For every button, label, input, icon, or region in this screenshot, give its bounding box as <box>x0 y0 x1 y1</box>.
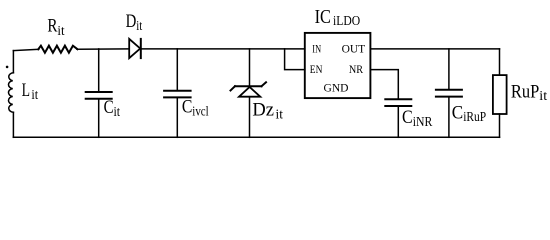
svg-text:it: it <box>276 108 284 123</box>
svg-text:NR: NR <box>349 64 364 76</box>
svg-text:it: it <box>136 19 142 34</box>
svg-text:C: C <box>104 98 114 118</box>
svg-text:ivcl: ivcl <box>192 104 208 119</box>
svg-text:OUT: OUT <box>342 44 366 56</box>
svg-text:Dz: Dz <box>252 101 274 121</box>
svg-text:D: D <box>126 12 137 32</box>
svg-text:IN: IN <box>312 44 321 56</box>
svg-text:iLDO: iLDO <box>333 14 360 29</box>
svg-text:IC: IC <box>315 6 331 28</box>
svg-text:iNR: iNR <box>413 115 433 130</box>
svg-text:iRuP: iRuP <box>463 110 486 125</box>
svg-text:C: C <box>182 98 193 118</box>
svg-text:it: it <box>31 88 38 103</box>
svg-text:EN: EN <box>310 64 323 76</box>
svg-text:it: it <box>539 89 547 104</box>
svg-text:GND: GND <box>324 83 349 95</box>
svg-text:C: C <box>402 108 413 128</box>
svg-text:it: it <box>57 24 64 39</box>
svg-text:C: C <box>452 104 463 124</box>
svg-text:it: it <box>114 105 121 120</box>
svg-text:RuP: RuP <box>511 83 539 103</box>
svg-text:L: L <box>22 81 30 101</box>
